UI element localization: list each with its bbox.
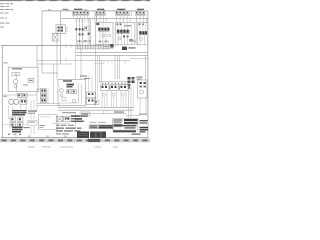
filter stack lower — [10, 117, 23, 127]
bottom specks left cluster — [8, 134, 21, 135]
approval text row — [132, 134, 141, 135]
border zone tick labels — [28, 9, 141, 136]
riser pair at B2 left — [95, 11, 96, 23]
extra bank drop wires — [105, 96, 124, 107]
wire x37 lower — [36, 92, 38, 110]
wire y58.4 right — [130, 57, 148, 59]
control valve enclosure — [58, 79, 86, 105]
drop wire x117.5 — [117, 55, 119, 79]
panel divider wire x75.6 — [75, 114, 77, 132]
solenoid valve group G2 — [95, 9, 106, 19]
wire x48 — [47, 88, 49, 104]
cylinder boxes mid — [87, 76, 96, 105]
drop wire x37 — [36, 45, 38, 67]
drop wire x115 — [114, 55, 116, 79]
small ref box above title block — [80, 111, 126, 116]
return bus y52.35 — [76, 51, 148, 53]
stamp notes dark mass — [77, 132, 106, 138]
accumulator box right — [138, 80, 148, 98]
sheet border frame — [1, 11, 148, 138]
riser wire x42 — [41, 11, 43, 73]
valve bank header wire — [99, 81, 131, 83]
valve bank V3 — [120, 85, 129, 108]
scan edge bottom band — [0, 139, 150, 143]
wire x75.2 to enclosure — [74, 45, 76, 79]
gear pump valves — [17, 93, 27, 104]
lower return wires — [58, 107, 134, 109]
swing motor cluster dark — [128, 77, 143, 87]
pilot valve small dark — [115, 44, 136, 50]
drop wires from header to manifolds — [76, 18, 147, 22]
drawing number block right — [139, 114, 148, 133]
drop wire x145.8 — [145, 55, 147, 80]
feed wires with inline check valves left of B2 — [75, 18, 90, 45]
check valve under priority valve — [53, 33, 58, 79]
paper background — [0, 0, 150, 150]
label box on bus — [104, 45, 108, 48]
pump circle pair — [9, 99, 19, 104]
cluster wires — [9, 95, 34, 138]
tiny label above riser — [63, 9, 68, 10]
wires under swing motor — [128, 87, 131, 119]
tank feed wire y60.5 — [37, 60, 130, 62]
valve bank V1 — [101, 85, 110, 108]
wire y124.6 left — [2, 124, 27, 126]
wire between B3 B4 — [135, 18, 137, 45]
priority valve left of manifolds — [56, 25, 68, 34]
port label left margin B — [3, 96, 7, 97]
bus crossing ticks — [66, 44, 71, 61]
supply riser wire x60.7 — [60, 11, 62, 64]
pilot marks above valve bank — [102, 83, 129, 85]
inter-valve specks — [109, 86, 130, 89]
solenoid valve group G1 — [72, 9, 89, 19]
wire y123.2 — [52, 122, 70, 124]
wire y73 stub — [42, 72, 58, 74]
relief valve stack — [40, 89, 46, 103]
manifold block B2 — [96, 22, 114, 44]
bus wire y47 — [76, 46, 113, 48]
boxed label left cluster — [28, 120, 38, 125]
wire x53.5 — [53, 64, 55, 104]
valve bank V2 — [110, 85, 119, 108]
drop wire x99.7 — [99, 55, 101, 81]
return bus y55.35 — [76, 54, 148, 56]
lower dark cluster — [12, 127, 30, 133]
drop wire x119.5 — [119, 55, 121, 79]
junction block dark — [110, 44, 113, 48]
manifold block B4 — [137, 22, 148, 44]
wire x97.5 — [97, 55, 99, 100]
ticks on y60.5 — [104, 61, 125, 64]
solenoid valve group G3 — [115, 9, 131, 19]
solenoid valve group G4 — [135, 9, 146, 19]
port label left margin A — [3, 62, 8, 63]
wire y63.8 stub — [94, 63, 104, 65]
wires under accumulator box — [140, 98, 146, 115]
general notes text top-left — [0, 3, 13, 27]
main pressure bus y45.35 — [1, 44, 113, 46]
bus wire y48.6 — [76, 48, 113, 50]
header manifold wire y18.35 — [61, 17, 148, 19]
drop wire x81 — [80, 49, 82, 80]
parts table — [89, 125, 114, 129]
ticks to ref line — [104, 110, 107, 113]
return wire y95 — [2, 94, 37, 96]
wire x133.5 — [133, 87, 135, 108]
scan edge top dashed bar — [0, 0, 150, 1]
title block table — [113, 118, 138, 132]
manifold block B3 — [115, 22, 135, 44]
cooler valve with X — [56, 116, 69, 121]
pump label dark block — [12, 110, 37, 115]
revision text left of title block — [75, 118, 82, 122]
manifold underside smudge — [76, 40, 136, 43]
reservoir tank box — [8, 67, 38, 91]
labels above cylinder boxes — [80, 76, 90, 80]
legend text rows — [56, 125, 82, 135]
drop wire x101.7 — [101, 61, 103, 82]
stack side labels — [37, 89, 40, 92]
drop wire x95.7 — [95, 50, 97, 106]
connection comb ticks — [78, 44, 109, 50]
note box bottom mid-left — [38, 115, 57, 130]
wire y115.3 — [126, 114, 140, 116]
wire y105.6 — [37, 105, 60, 107]
tank feed wire y64 — [37, 63, 72, 65]
cooler labels — [71, 115, 88, 122]
wire y103.7 — [37, 103, 60, 105]
pilot valve box left — [94, 100, 99, 104]
faint footer marks — [28, 146, 118, 147]
faint upper parts rows — [90, 122, 107, 123]
